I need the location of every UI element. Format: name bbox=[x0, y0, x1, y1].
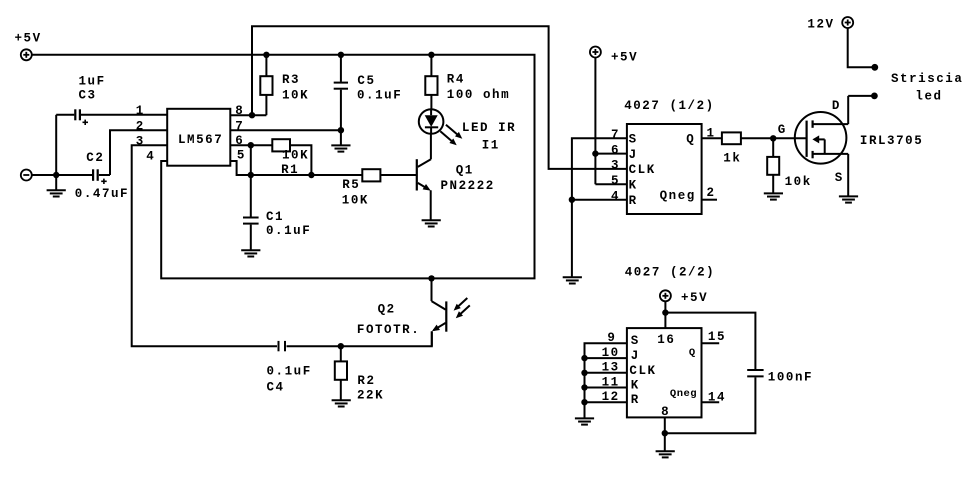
ground below MOSFET source bbox=[839, 196, 858, 202]
ground below C1 bbox=[241, 250, 260, 256]
label R1 bbox=[281, 163, 299, 177]
svg-text:2: 2 bbox=[707, 186, 716, 200]
label Striscia bbox=[891, 72, 963, 86]
svg-text:4: 4 bbox=[611, 189, 620, 203]
label +5V bbox=[15, 31, 42, 45]
label Q1 PN2222 bbox=[441, 179, 495, 193]
svg-text:10: 10 bbox=[602, 346, 620, 360]
svg-text:C1: C1 bbox=[266, 210, 284, 224]
svg-text:100nF: 100nF bbox=[768, 371, 813, 385]
wire 100nF to ground rail bbox=[665, 377, 756, 433]
wire pin 8 to ground rail bbox=[664, 417, 666, 433]
ground left junction bbox=[47, 175, 66, 197]
label C1 value 0.1uF bbox=[266, 224, 311, 238]
pin 11 label bbox=[602, 375, 620, 389]
transistor Q1 PN2222 bbox=[417, 134, 431, 221]
svg-text:led: led bbox=[915, 90, 942, 104]
pin 7 label 4027-1 bbox=[611, 128, 620, 142]
svg-text:J: J bbox=[631, 349, 640, 363]
node R1 to pin5 wire bbox=[308, 172, 314, 178]
resistor 10k gate pulldown bbox=[767, 138, 779, 193]
transistor Q2 phototransistor bbox=[432, 278, 447, 346]
label R input 4027-2 bbox=[631, 393, 640, 407]
node R2 top junction bbox=[338, 343, 344, 349]
wire 1k to gate bbox=[741, 137, 807, 139]
node bus CLK 4027-2 bbox=[581, 370, 587, 376]
svg-text:2: 2 bbox=[136, 119, 145, 133]
flip-flop U2 4027 (1/2) bbox=[627, 124, 702, 214]
svg-text:6: 6 bbox=[611, 143, 620, 157]
label LED IR bbox=[462, 121, 516, 135]
op-amp U1 LM567 tone decoder bbox=[167, 109, 230, 166]
pin 8 label bbox=[235, 104, 244, 118]
wire pin 14 stub bbox=[702, 401, 720, 403]
label C2 value 0.47uF bbox=[75, 187, 129, 201]
svg-text:R4: R4 bbox=[447, 72, 465, 86]
svg-text:Q1: Q1 bbox=[456, 164, 474, 178]
svg-text:R: R bbox=[631, 393, 640, 407]
power +5V supply terminal bbox=[21, 49, 32, 60]
label R5 value 10K bbox=[342, 194, 369, 208]
svg-text:CLK: CLK bbox=[629, 163, 656, 177]
label C3 bbox=[79, 88, 97, 102]
capacitor C1 bbox=[243, 175, 259, 250]
pin 3 label bbox=[136, 134, 145, 148]
node bus K 4027-2 bbox=[581, 384, 587, 390]
pin 13 label bbox=[602, 361, 620, 375]
svg-text:Qneg: Qneg bbox=[670, 388, 697, 400]
wire pin6-pin5 vertical bbox=[250, 145, 252, 175]
svg-text:R5: R5 bbox=[342, 178, 360, 192]
label Q2 FOTOTR. bbox=[357, 323, 420, 337]
label C5 bbox=[357, 74, 375, 88]
svg-text:7: 7 bbox=[611, 128, 620, 142]
label R4 bbox=[447, 72, 465, 86]
node R pin junction bbox=[569, 197, 575, 203]
svg-text:R: R bbox=[629, 194, 638, 208]
label J input bbox=[629, 148, 638, 162]
svg-text:4027 (2/2): 4027 (2/2) bbox=[625, 266, 716, 280]
label S input bbox=[629, 133, 638, 147]
svg-text:15: 15 bbox=[708, 330, 726, 344]
svg-text:+5V: +5V bbox=[15, 31, 42, 45]
capacitor C4 bbox=[279, 341, 286, 351]
node pin 8 junction bbox=[249, 112, 255, 118]
wire C3 left lead bbox=[56, 115, 74, 175]
node R3 top on +5V rail bbox=[263, 52, 269, 58]
svg-text:5: 5 bbox=[237, 149, 246, 163]
power +5V for 4027-2 bbox=[660, 290, 671, 301]
label Qneg output 4027-2 bbox=[670, 388, 697, 400]
resistor R4 bbox=[425, 55, 437, 109]
wire +5V rail and loop to pin 4 bbox=[32, 55, 535, 279]
svg-text:Q: Q bbox=[689, 347, 696, 359]
label led bbox=[915, 90, 942, 104]
svg-text:+5V: +5V bbox=[681, 291, 708, 305]
svg-text:S: S bbox=[629, 133, 638, 147]
resistor R3 bbox=[260, 55, 272, 115]
capacitor C6 100nF bbox=[747, 370, 763, 376]
wire 0V to C2/C3 junction bbox=[32, 174, 93, 176]
pin 1 label 4027-1 bbox=[707, 126, 716, 140]
wire Q to 1k bbox=[702, 137, 722, 139]
label C3 value 1uF bbox=[79, 74, 106, 88]
label R5 bbox=[342, 178, 360, 192]
svg-text:D: D bbox=[832, 99, 841, 113]
light arrow from LED upper bbox=[446, 125, 462, 139]
wire C3 to pin 1 bbox=[81, 114, 167, 116]
svg-text:C2: C2 bbox=[86, 151, 104, 165]
flip-flop U2 4027 (2/2) bbox=[627, 328, 702, 417]
label CLK input 4027-2 bbox=[629, 364, 656, 378]
svg-text:10K: 10K bbox=[282, 149, 309, 163]
label C5 value 0.1uF bbox=[357, 89, 402, 103]
pin 8 label 4027-2 bbox=[661, 405, 670, 419]
pin 7 label bbox=[235, 119, 244, 133]
svg-text:Qneg: Qneg bbox=[660, 189, 696, 203]
node gate junction bbox=[770, 135, 776, 141]
label R2 value 22K bbox=[357, 389, 384, 403]
wire pin 15 stub bbox=[702, 342, 720, 344]
svg-text:LED IR: LED IR bbox=[462, 121, 516, 135]
label S bbox=[835, 171, 844, 185]
svg-text:10K: 10K bbox=[342, 194, 369, 208]
svg-text:11: 11 bbox=[602, 375, 620, 389]
node R4 top on +5V rail bbox=[428, 52, 434, 58]
pin 10 label bbox=[602, 346, 620, 360]
node led strip terminal bottom bbox=[871, 93, 878, 100]
pin 6 label 4027-1 bbox=[611, 143, 620, 157]
svg-text:+5V: +5V bbox=[611, 50, 638, 64]
node ground rail junction bbox=[662, 430, 668, 436]
node pin 7 C5 junction bbox=[338, 127, 344, 133]
wire pin 3 to C4 bbox=[132, 145, 277, 346]
pin 5 label bbox=[237, 149, 246, 163]
svg-text:0.1uF: 0.1uF bbox=[267, 364, 312, 378]
label C4 bbox=[267, 381, 285, 395]
transistor M1 IRL3705 MOSFET bbox=[795, 96, 848, 196]
svg-text:K: K bbox=[629, 179, 638, 193]
node C5 top on +5V rail bbox=[338, 52, 344, 58]
ground below 4027-2 bbox=[656, 433, 675, 457]
label 12V bbox=[807, 18, 834, 32]
label Qneg output bbox=[660, 189, 696, 203]
svg-text:R3: R3 bbox=[282, 73, 300, 87]
svg-text:J: J bbox=[629, 148, 638, 162]
svg-text:14: 14 bbox=[708, 391, 726, 405]
label 10k bbox=[785, 175, 812, 189]
label Q2 bbox=[378, 302, 396, 316]
wire Qneg stub bbox=[702, 199, 717, 201]
pin 3 label 4027-1 bbox=[611, 159, 620, 173]
node Q2 collector on bottom loop bbox=[428, 275, 434, 281]
diode I1 LED IR bbox=[419, 109, 444, 134]
label CLK input bbox=[629, 163, 656, 177]
wire S-R bus to ground bbox=[572, 138, 627, 277]
ground below C5 bbox=[331, 130, 350, 151]
ground below Q1 emitter bbox=[422, 220, 441, 226]
svg-text:16: 16 bbox=[657, 333, 675, 347]
svg-text:22K: 22K bbox=[357, 389, 384, 403]
resistor R1 bbox=[272, 139, 290, 151]
label K input 4027-2 bbox=[631, 379, 640, 393]
node bus J 4027-2 bbox=[581, 355, 587, 361]
wire drain to led strip terminal bbox=[848, 95, 874, 97]
pin 4 label bbox=[146, 150, 155, 164]
svg-text:C3: C3 bbox=[79, 88, 97, 102]
pin 9 label bbox=[607, 331, 616, 345]
svg-text:1uF: 1uF bbox=[79, 74, 106, 88]
svg-text:4027 (1/2): 4027 (1/2) bbox=[624, 99, 715, 113]
svg-text:4: 4 bbox=[146, 150, 155, 164]
ground below 10k bbox=[764, 193, 783, 199]
svg-text:0.47uF: 0.47uF bbox=[75, 187, 129, 201]
pin 6 label bbox=[235, 134, 244, 148]
capacitor C2 bbox=[93, 169, 107, 184]
pin 5 label 4027-1 bbox=[611, 174, 620, 188]
pin 2 label bbox=[136, 119, 145, 133]
wire +5V to J and K bbox=[595, 58, 627, 185]
wire pin 5 net bbox=[230, 161, 362, 175]
label 4027 (1/2) bbox=[624, 99, 715, 113]
ground below R2 bbox=[332, 400, 351, 406]
label +5V 4027-1 bbox=[611, 50, 638, 64]
svg-text:3: 3 bbox=[611, 159, 620, 173]
label R input bbox=[629, 194, 638, 208]
label 4027 (2/2) bbox=[625, 266, 716, 280]
wire unused input bus bbox=[585, 343, 627, 418]
wire +5V rail to 100nF bbox=[665, 313, 755, 369]
svg-text:0.1uF: 0.1uF bbox=[266, 224, 311, 238]
capacitor C3 bbox=[75, 109, 88, 125]
label R3 bbox=[282, 73, 300, 87]
wire C4 to Q2 emitter bbox=[287, 332, 432, 347]
light arrow into Q2 upper bbox=[454, 298, 468, 311]
svg-text:I1: I1 bbox=[482, 138, 500, 152]
wire pin 6 to R1 bbox=[230, 144, 272, 146]
wire pin 8 to R3 bbox=[230, 114, 266, 116]
label +5V 4027-2 bbox=[681, 291, 708, 305]
label 1k bbox=[723, 151, 741, 165]
svg-text:Q2: Q2 bbox=[378, 302, 396, 316]
svg-text:0.1uF: 0.1uF bbox=[357, 89, 402, 103]
label R4 value 100 ohm bbox=[447, 88, 510, 102]
label R1 value 10K bbox=[282, 149, 309, 163]
label J input 4027-2 bbox=[631, 349, 640, 363]
label D bbox=[832, 99, 841, 113]
label R3 value 10K bbox=[282, 89, 309, 103]
svg-text:1k: 1k bbox=[723, 151, 741, 165]
svg-text:S: S bbox=[835, 171, 844, 185]
pin 2 label 4027-1 bbox=[707, 186, 716, 200]
wire pin 8 top loop to 4027 CLK bbox=[252, 26, 627, 169]
capacitor C5 bbox=[334, 55, 348, 130]
pin 16 label bbox=[657, 333, 675, 347]
svg-text:IRL3705: IRL3705 bbox=[860, 134, 923, 148]
label Q1 bbox=[456, 164, 474, 178]
resistor 1k gate bbox=[722, 132, 741, 144]
label I1 bbox=[482, 138, 500, 152]
svg-text:12: 12 bbox=[602, 390, 620, 404]
node J pin junction bbox=[592, 150, 598, 156]
svg-text:PN2222: PN2222 bbox=[441, 179, 495, 193]
wire pin 7 to ground bbox=[230, 129, 341, 131]
pin 14 label bbox=[708, 391, 726, 405]
svg-text:Striscia: Striscia bbox=[891, 72, 963, 86]
pin 1 label bbox=[136, 104, 145, 118]
label C1 bbox=[266, 210, 284, 224]
svg-text:100 ohm: 100 ohm bbox=[447, 88, 510, 102]
svg-text:12V: 12V bbox=[807, 18, 834, 32]
svg-text:C5: C5 bbox=[357, 74, 375, 88]
svg-text:S: S bbox=[631, 334, 640, 348]
label S input 4027-2 bbox=[631, 334, 640, 348]
node bus R 4027-2 bbox=[581, 399, 587, 405]
svg-text:CLK: CLK bbox=[629, 364, 656, 378]
svg-text:C4: C4 bbox=[267, 381, 285, 395]
node ground junction left bbox=[53, 172, 59, 178]
wire C2 to pin 2 bbox=[99, 130, 167, 175]
label C4 value 0.1uF bbox=[267, 364, 312, 378]
svg-text:G: G bbox=[778, 123, 787, 137]
pin 12 label bbox=[602, 390, 620, 404]
wire R1 right lead bbox=[290, 145, 311, 175]
power +5V for 4027 J/K bbox=[590, 47, 601, 58]
svg-text:R2: R2 bbox=[357, 374, 375, 388]
svg-text:8: 8 bbox=[661, 405, 670, 419]
wire +5V to pin 16 bbox=[664, 301, 666, 328]
svg-text:5: 5 bbox=[611, 174, 620, 188]
svg-text:FOTOTR.: FOTOTR. bbox=[357, 323, 420, 337]
label Q output bbox=[686, 133, 695, 147]
svg-text:K: K bbox=[631, 379, 640, 393]
svg-text:10k: 10k bbox=[785, 175, 812, 189]
svg-text:Q: Q bbox=[686, 133, 695, 147]
svg-text:13: 13 bbox=[602, 361, 620, 375]
svg-text:1: 1 bbox=[136, 104, 145, 118]
label K input bbox=[629, 179, 638, 193]
label Q output 4027-2 bbox=[689, 347, 696, 359]
pin 15 label bbox=[708, 330, 726, 344]
pin 4 label 4027-1 bbox=[611, 189, 620, 203]
resistor R5 bbox=[362, 169, 380, 181]
label 100nF bbox=[768, 371, 813, 385]
label G bbox=[778, 123, 787, 137]
label LM567 bbox=[178, 133, 223, 147]
label C2 bbox=[86, 151, 104, 165]
wire R5 to Q1 base bbox=[380, 174, 416, 176]
light arrow from LED lower bbox=[440, 131, 456, 145]
node led strip terminal top bbox=[871, 64, 878, 71]
svg-text:LM567: LM567 bbox=[178, 133, 223, 147]
ground below S/R bus bbox=[563, 277, 582, 283]
svg-text:9: 9 bbox=[607, 331, 616, 345]
node C1 top junction bbox=[248, 172, 254, 178]
power 0V terminal bbox=[21, 170, 32, 181]
label R2 bbox=[357, 374, 375, 388]
power 12V supply terminal bbox=[842, 17, 853, 28]
ground below input bus 4027-2 bbox=[575, 418, 594, 424]
wire 12V to led strip terminal bbox=[848, 28, 875, 67]
svg-text:10K: 10K bbox=[282, 89, 309, 103]
node +5V rail junction 4027-2 bbox=[662, 309, 668, 315]
label IRL3705 bbox=[860, 134, 923, 148]
node pin 6 junction bbox=[248, 142, 254, 148]
light arrow into Q2 lower bbox=[456, 305, 470, 318]
resistor R2 bbox=[335, 346, 347, 400]
